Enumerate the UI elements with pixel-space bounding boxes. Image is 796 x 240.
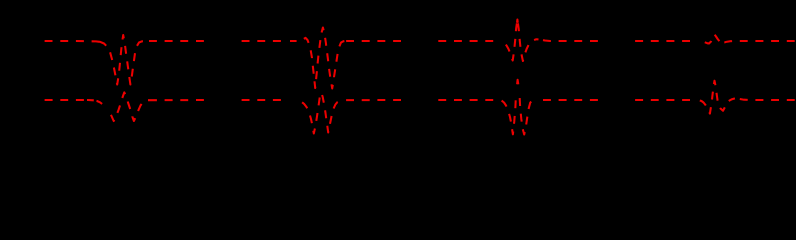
panel 2 top curve xyxy=(242,28,401,89)
panel 3 top curve xyxy=(438,20,598,62)
panel 4 top curve xyxy=(635,35,795,44)
panel 1 bottom curve xyxy=(45,92,204,121)
panel 1 top curve xyxy=(45,35,204,85)
panel 2 bottom curve xyxy=(242,95,401,134)
panel 4 bottom curve xyxy=(635,81,795,114)
panel 3 bottom curve xyxy=(438,80,598,135)
